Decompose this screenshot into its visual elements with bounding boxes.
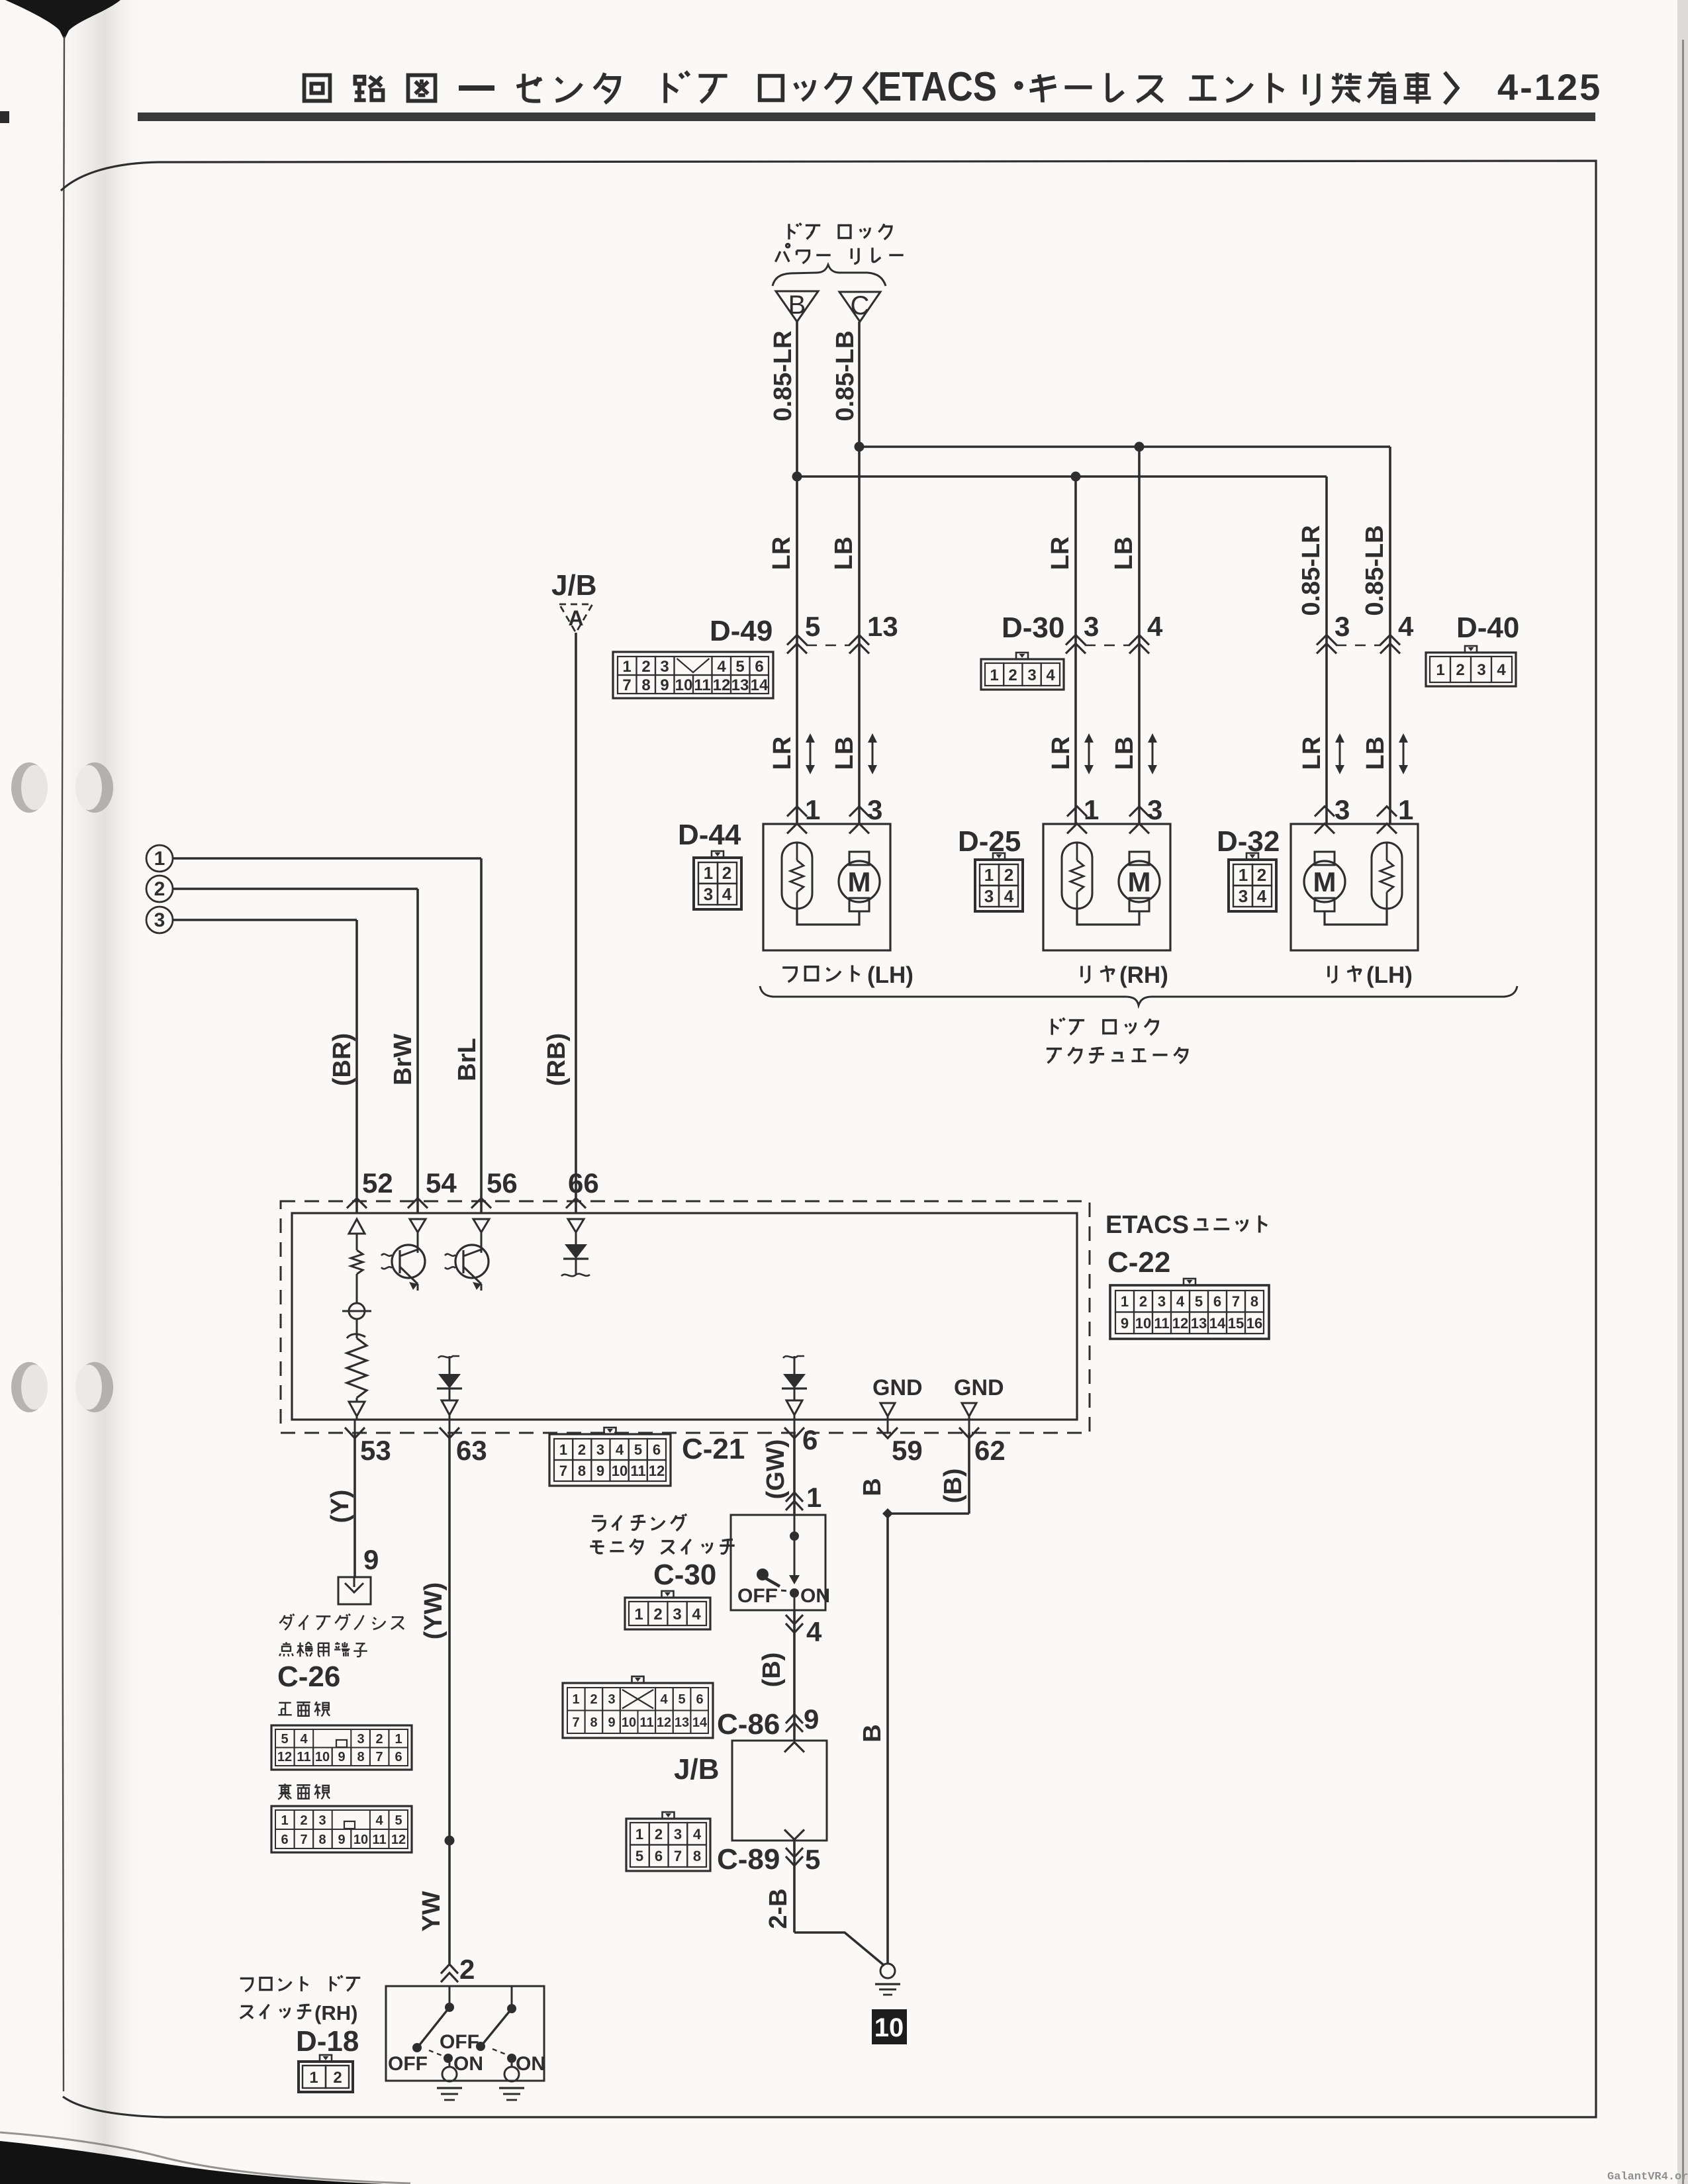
svg-text:54: 54	[426, 1167, 457, 1199]
svg-text:2: 2	[1257, 865, 1266, 885]
svg-text:11: 11	[1154, 1315, 1169, 1332]
svg-text:15: 15	[1228, 1315, 1244, 1332]
svg-text:8: 8	[693, 1848, 701, 1864]
svg-text:C-30: C-30	[653, 1559, 716, 1591]
svg-text:14: 14	[751, 676, 769, 694]
svg-text:9: 9	[338, 1833, 345, 1847]
svg-text:4: 4	[717, 658, 726, 676]
svg-text:5: 5	[805, 1844, 820, 1875]
svg-text:2: 2	[1456, 661, 1464, 679]
svg-text:8: 8	[590, 1715, 597, 1730]
svg-text:8: 8	[318, 1833, 326, 1847]
svg-text:3: 3	[1335, 611, 1350, 642]
svg-text:4: 4	[693, 1826, 702, 1843]
svg-text:D-25: D-25	[958, 825, 1021, 858]
svg-text:12: 12	[391, 1833, 406, 1847]
svg-text:66: 66	[568, 1167, 599, 1199]
svg-text:LB: LB	[831, 737, 859, 770]
svg-text:10: 10	[622, 1715, 636, 1730]
svg-text:13: 13	[867, 611, 898, 642]
svg-text:1: 1	[1436, 661, 1444, 679]
svg-text:ETACS: ETACS	[878, 64, 997, 110]
svg-text:13: 13	[1191, 1315, 1207, 1332]
svg-text:7: 7	[300, 1833, 307, 1847]
svg-text:4: 4	[806, 1616, 822, 1647]
svg-text:OFF: OFF	[388, 2053, 428, 2075]
svg-text:ETACS: ETACS	[1105, 1211, 1189, 1239]
svg-text:1: 1	[559, 1441, 567, 1458]
svg-text:10: 10	[1135, 1315, 1151, 1332]
svg-text:5: 5	[805, 611, 820, 642]
svg-text:1: 1	[395, 1732, 402, 1747]
svg-text:0.85-LB: 0.85-LB	[1361, 525, 1389, 615]
svg-text:4: 4	[722, 884, 732, 904]
svg-text:J/B: J/B	[551, 569, 596, 602]
svg-text:J/B: J/B	[674, 1753, 719, 1786]
svg-text:62: 62	[974, 1435, 1006, 1466]
svg-text:0.85-LR: 0.85-LR	[1297, 525, 1325, 615]
svg-text:3: 3	[1477, 661, 1485, 679]
svg-text:1: 1	[635, 1826, 643, 1843]
svg-text:LR: LR	[769, 737, 796, 770]
svg-text:1: 1	[634, 1606, 643, 1623]
svg-text:(B): (B)	[758, 1653, 786, 1688]
svg-text:2: 2	[375, 1732, 383, 1747]
svg-text:9: 9	[596, 1463, 604, 1479]
svg-text:6: 6	[395, 1750, 402, 1764]
svg-text:12: 12	[1172, 1315, 1188, 1332]
svg-text:(LH): (LH)	[1366, 962, 1413, 988]
svg-text:4: 4	[1398, 611, 1414, 642]
svg-text:C-21: C-21	[682, 1433, 745, 1465]
svg-text:M: M	[848, 866, 871, 897]
svg-text:9: 9	[804, 1704, 819, 1735]
svg-text:D-49: D-49	[710, 615, 773, 647]
svg-text:3: 3	[867, 794, 882, 825]
svg-text:11: 11	[639, 1715, 653, 1730]
svg-text:LB: LB	[1110, 537, 1138, 570]
svg-text:53: 53	[360, 1435, 391, 1466]
svg-text:1: 1	[1084, 794, 1099, 825]
svg-text:OFF: OFF	[440, 2031, 479, 2053]
svg-text:3: 3	[984, 886, 994, 906]
svg-text:12: 12	[649, 1463, 665, 1479]
svg-text:C-89: C-89	[717, 1843, 780, 1876]
svg-text:(RH): (RH)	[1119, 962, 1168, 988]
svg-text:GND: GND	[872, 1375, 923, 1400]
svg-text:9: 9	[338, 1750, 345, 1764]
svg-text:11: 11	[694, 676, 710, 694]
svg-text:3: 3	[1084, 611, 1099, 642]
svg-text:4-125: 4-125	[1497, 66, 1602, 108]
svg-text:9: 9	[608, 1715, 615, 1730]
svg-text:3: 3	[1147, 794, 1162, 825]
svg-text:(Y): (Y)	[326, 1490, 354, 1524]
svg-text:4: 4	[1497, 661, 1506, 679]
svg-text:2: 2	[722, 863, 731, 883]
svg-text:5: 5	[281, 1732, 288, 1747]
svg-text:(GW): (GW)	[762, 1439, 790, 1500]
svg-text:3: 3	[357, 1732, 364, 1747]
svg-text:(YW): (YW)	[420, 1582, 447, 1640]
svg-text:6: 6	[755, 658, 763, 676]
svg-text:10: 10	[874, 2013, 904, 2042]
svg-text:7: 7	[559, 1463, 567, 1479]
svg-text:C: C	[851, 291, 870, 320]
svg-text:D-30: D-30	[1002, 612, 1064, 644]
svg-text:4: 4	[1004, 886, 1014, 906]
svg-text:7: 7	[375, 1750, 383, 1764]
svg-text:4: 4	[1046, 666, 1055, 684]
svg-text:9: 9	[363, 1544, 379, 1575]
svg-text:2: 2	[1139, 1293, 1147, 1310]
svg-text:2: 2	[459, 1954, 475, 1985]
svg-text:8: 8	[1250, 1293, 1258, 1310]
svg-text:10: 10	[315, 1750, 330, 1764]
svg-text:2: 2	[653, 1606, 662, 1623]
svg-text:LR: LR	[1047, 737, 1075, 770]
svg-text:1: 1	[1398, 794, 1413, 825]
svg-text:11: 11	[297, 1750, 310, 1764]
svg-text:11: 11	[372, 1833, 386, 1847]
svg-text:6: 6	[653, 1441, 661, 1458]
svg-text:59: 59	[892, 1435, 923, 1466]
svg-text:8: 8	[641, 676, 650, 694]
svg-text:7: 7	[622, 676, 631, 694]
svg-text:12: 12	[713, 676, 731, 694]
svg-text:2: 2	[333, 2069, 342, 2087]
svg-text:4: 4	[1176, 1293, 1185, 1310]
svg-text:6: 6	[281, 1833, 288, 1847]
svg-text:0.85-LR: 0.85-LR	[769, 330, 797, 421]
svg-text:2: 2	[1004, 865, 1013, 885]
svg-text:C-26: C-26	[277, 1661, 340, 1693]
svg-text:LB: LB	[1362, 737, 1389, 770]
svg-text:12: 12	[657, 1715, 671, 1730]
svg-text:6: 6	[696, 1692, 703, 1707]
svg-text:3: 3	[1027, 666, 1036, 684]
svg-text:3: 3	[318, 1813, 326, 1828]
svg-text:5: 5	[634, 1441, 642, 1458]
svg-text:B: B	[788, 291, 806, 320]
svg-text:0.85-LB: 0.85-LB	[831, 330, 859, 421]
svg-text:1: 1	[1239, 865, 1248, 885]
svg-text:LR: LR	[1298, 737, 1326, 770]
svg-text:1: 1	[309, 2069, 318, 2087]
svg-text:1: 1	[805, 794, 820, 825]
svg-text:10: 10	[612, 1463, 628, 1479]
svg-text:52: 52	[362, 1167, 393, 1199]
svg-text:LB: LB	[830, 537, 858, 570]
svg-text:2-B: 2-B	[765, 1888, 792, 1929]
svg-text:D-40: D-40	[1456, 612, 1519, 644]
svg-text:3: 3	[674, 1826, 682, 1843]
svg-text:10: 10	[675, 676, 693, 694]
svg-text:ON: ON	[800, 1585, 830, 1607]
svg-text:3: 3	[704, 884, 713, 904]
svg-text:2: 2	[300, 1813, 307, 1828]
svg-text:BrL: BrL	[453, 1038, 481, 1081]
svg-text:BrW: BrW	[389, 1034, 417, 1085]
svg-text:2: 2	[578, 1441, 586, 1458]
svg-text:B: B	[859, 1478, 886, 1496]
svg-text:3: 3	[1239, 886, 1248, 906]
svg-text:5: 5	[735, 658, 744, 676]
svg-text:1: 1	[622, 658, 631, 676]
svg-text:5: 5	[1195, 1293, 1203, 1310]
svg-text:5: 5	[635, 1848, 643, 1864]
svg-text:63: 63	[456, 1435, 487, 1466]
svg-text:1: 1	[281, 1813, 288, 1828]
svg-text:3: 3	[154, 909, 165, 931]
svg-text:7: 7	[1232, 1293, 1240, 1310]
svg-text:5: 5	[395, 1813, 402, 1828]
svg-text:7: 7	[674, 1848, 682, 1864]
svg-text:M: M	[1128, 866, 1151, 897]
svg-text:2: 2	[655, 1826, 663, 1843]
svg-text:12: 12	[277, 1750, 292, 1764]
svg-text:LB: LB	[1111, 737, 1139, 770]
svg-text:4: 4	[616, 1441, 624, 1458]
svg-text:4: 4	[692, 1606, 701, 1623]
svg-text:OFF: OFF	[737, 1585, 777, 1607]
svg-text:4: 4	[660, 1692, 668, 1707]
svg-text:3: 3	[1335, 794, 1350, 825]
svg-text:4: 4	[1147, 611, 1163, 642]
svg-text:C-86: C-86	[717, 1708, 780, 1741]
svg-text:9: 9	[1121, 1315, 1129, 1332]
svg-text:5: 5	[678, 1692, 685, 1707]
svg-text:(RB): (RB)	[543, 1033, 571, 1086]
svg-text:(RH): (RH)	[314, 2001, 357, 2025]
svg-text:GalantVR4.org: GalantVR4.org	[1607, 2171, 1688, 2183]
svg-text:1: 1	[154, 848, 165, 870]
svg-text:3: 3	[1158, 1293, 1166, 1310]
svg-text:D-18: D-18	[296, 2025, 359, 2058]
svg-text:1: 1	[1121, 1293, 1129, 1310]
svg-text:2: 2	[154, 878, 165, 900]
svg-text:1: 1	[984, 865, 994, 885]
svg-text:A: A	[568, 606, 583, 630]
svg-text:M: M	[1313, 866, 1336, 897]
svg-text:8: 8	[578, 1463, 586, 1479]
svg-text:C-22: C-22	[1107, 1246, 1170, 1279]
svg-text:4: 4	[300, 1732, 308, 1747]
svg-text:2: 2	[590, 1692, 597, 1707]
svg-text:LR: LR	[1047, 537, 1074, 570]
svg-text:4: 4	[1257, 886, 1267, 906]
svg-text:14: 14	[1209, 1315, 1226, 1332]
svg-text:(LH): (LH)	[867, 962, 914, 988]
svg-text:16: 16	[1246, 1315, 1262, 1332]
svg-text:9: 9	[660, 676, 669, 694]
svg-text:10: 10	[353, 1833, 368, 1847]
svg-text:LR: LR	[768, 537, 796, 570]
svg-text:2: 2	[1008, 666, 1017, 684]
svg-text:56: 56	[487, 1167, 518, 1199]
svg-text:3: 3	[596, 1441, 604, 1458]
svg-text:8: 8	[357, 1750, 364, 1764]
svg-text:ON: ON	[516, 2053, 545, 2075]
svg-text:B: B	[859, 1724, 886, 1742]
svg-text:7: 7	[572, 1715, 579, 1730]
svg-text:11: 11	[630, 1463, 645, 1479]
svg-text:13: 13	[675, 1715, 689, 1730]
svg-text:3: 3	[608, 1692, 615, 1707]
svg-text:13: 13	[731, 676, 749, 694]
svg-text:3: 3	[673, 1606, 681, 1623]
svg-text:D-44: D-44	[678, 819, 741, 851]
svg-text:6: 6	[1213, 1293, 1221, 1310]
svg-text:3: 3	[660, 658, 669, 676]
svg-text:GND: GND	[954, 1375, 1004, 1400]
svg-text:(BR): (BR)	[328, 1033, 356, 1086]
svg-text:(B): (B)	[939, 1469, 967, 1504]
svg-text:1: 1	[704, 863, 713, 883]
svg-text:4: 4	[375, 1813, 383, 1828]
svg-text:1: 1	[990, 666, 998, 684]
svg-text:6: 6	[802, 1424, 818, 1455]
svg-text:2: 2	[641, 658, 650, 676]
svg-text:1: 1	[806, 1482, 821, 1513]
svg-text:1: 1	[572, 1692, 579, 1707]
svg-text:6: 6	[655, 1848, 663, 1864]
svg-text:YW: YW	[418, 1891, 445, 1931]
svg-text:14: 14	[692, 1715, 708, 1730]
svg-text:ON: ON	[453, 2053, 483, 2075]
